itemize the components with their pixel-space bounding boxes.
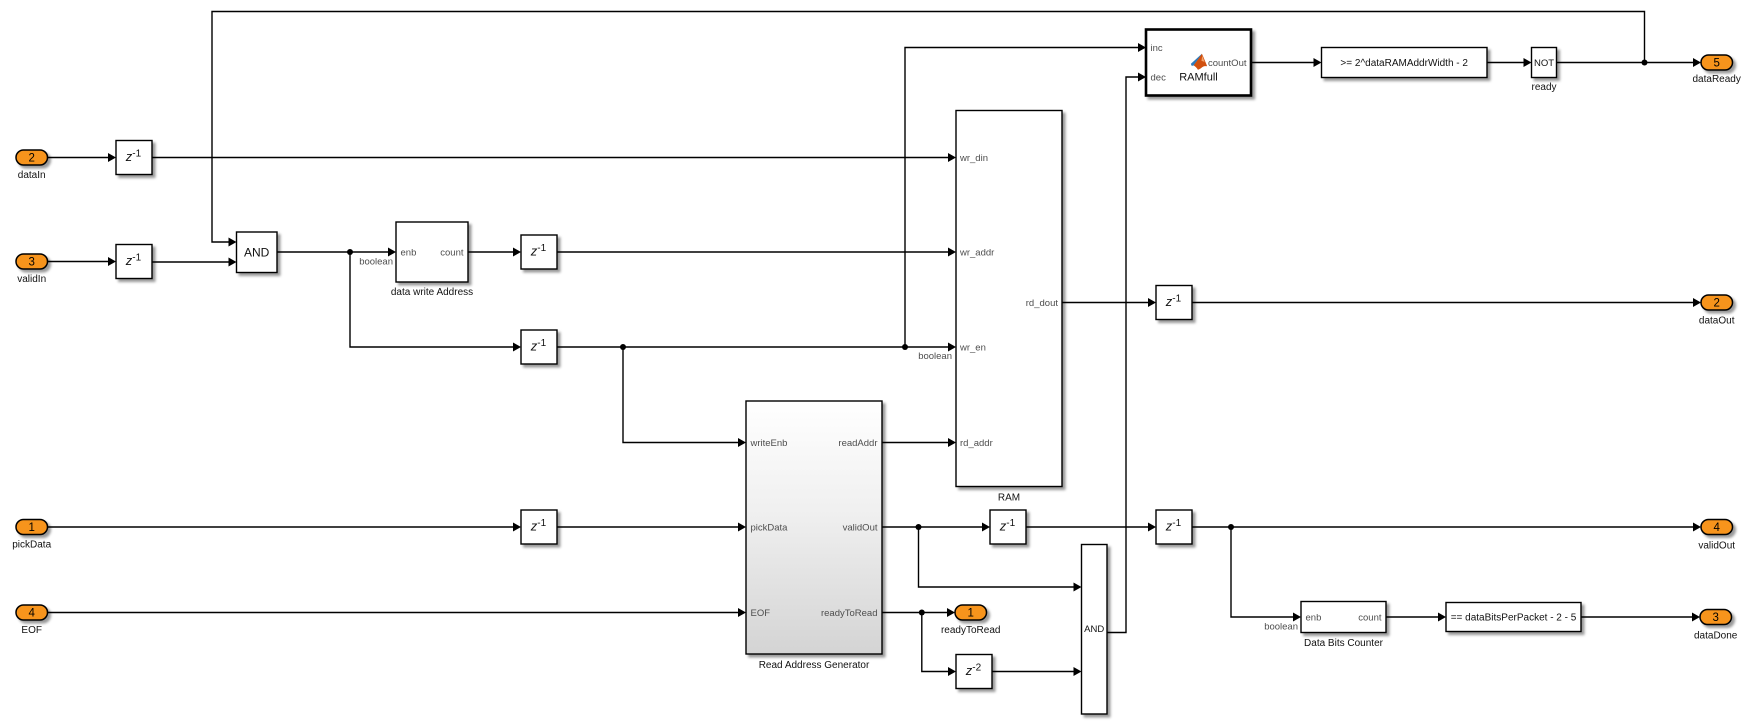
wire validOut branch down to Data Bits Counter enb xyxy=(1231,527,1301,622)
label boolean at enb xyxy=(359,257,393,268)
wire data write Address count to delay Z3 xyxy=(468,248,521,257)
svg-text:3: 3 xyxy=(1712,612,1718,624)
wire Z6 to delay Z7 xyxy=(1026,523,1156,532)
svg-text:4: 4 xyxy=(28,608,35,620)
delay Z5 xyxy=(521,510,557,544)
svg-text:NOT: NOT xyxy=(1534,58,1554,69)
output port 3 dataDone xyxy=(1694,610,1738,642)
input port 1 pickData xyxy=(12,520,51,551)
junction on AND output xyxy=(347,249,353,255)
svg-text:wr_addr: wr_addr xyxy=(959,248,994,259)
label boolean at Data Bits Counter enb xyxy=(1264,622,1298,633)
logic AND U2 xyxy=(1082,545,1108,715)
wire Z9 to AND input 2 xyxy=(992,667,1082,676)
compare block >= 2^dataRAMAddrWidth - 2 xyxy=(1322,48,1488,78)
wire Data Bits Counter count to compare xyxy=(1386,613,1446,622)
wire wr_en branch down to writeEnb xyxy=(623,347,746,447)
svg-text:3: 3 xyxy=(28,257,34,269)
svg-text:wr_en: wr_en xyxy=(959,343,986,354)
svg-text:enb: enb xyxy=(1306,613,1322,624)
delay Z4 xyxy=(521,330,557,364)
wire Z5 to Read Address Generator pickData xyxy=(557,523,746,532)
wire RAMfull countOut to compare xyxy=(1251,58,1322,67)
svg-text:dataIn: dataIn xyxy=(18,170,46,181)
wire readyToRead to port 1 xyxy=(882,608,955,617)
svg-text:AND: AND xyxy=(244,246,270,260)
delay Z9 xyxy=(956,655,992,689)
wire pickData to delay Z5 xyxy=(48,523,522,532)
delay Z2 xyxy=(116,245,152,279)
svg-text:dataDone: dataDone xyxy=(1694,631,1738,642)
wire Z4 to RAM wr_en xyxy=(557,343,956,352)
wire wr_en branch up to RAMfull inc xyxy=(905,43,1146,347)
MATLAB logo in RAMfull xyxy=(1191,54,1207,70)
RAM block xyxy=(956,111,1062,504)
wire NOT to dataReady port xyxy=(1557,58,1702,67)
MATLAB function RAMfull xyxy=(1146,30,1251,96)
svg-text:validOut: validOut xyxy=(843,523,878,534)
delay Z3 xyxy=(521,235,557,269)
wire AND output down to delay Z4 xyxy=(350,252,521,352)
subsystem Read Address Generator xyxy=(746,401,882,671)
label boolean at wr_en xyxy=(918,351,952,362)
svg-text:rd_dout: rd_dout xyxy=(1026,298,1059,309)
input port 4 EOF xyxy=(16,605,48,636)
wire compare to NOT xyxy=(1487,58,1532,67)
svg-text:readAddr: readAddr xyxy=(838,438,877,449)
svg-text:boolean: boolean xyxy=(1264,622,1298,633)
svg-text:5: 5 xyxy=(1713,58,1719,70)
junction on validOut output wire xyxy=(1228,524,1234,530)
logic NOT ready xyxy=(1531,48,1556,94)
logic AND U1 xyxy=(237,232,278,273)
wire readAddr to RAM rd_addr xyxy=(882,438,956,447)
svg-text:pickData: pickData xyxy=(751,523,789,534)
svg-text:count: count xyxy=(440,248,464,259)
svg-text:rd_addr: rd_addr xyxy=(960,438,993,449)
output port 4 validOut xyxy=(1698,520,1735,552)
svg-text:boolean: boolean xyxy=(359,257,393,268)
svg-text:4: 4 xyxy=(1713,522,1720,534)
svg-text:Data Bits Counter: Data Bits Counter xyxy=(1304,638,1384,649)
svg-text:AND: AND xyxy=(1084,624,1104,635)
svg-text:countOut: countOut xyxy=(1208,58,1247,69)
wire validIn to delay Z2 xyxy=(48,257,117,266)
wire AND U2 output up to RAMfull dec xyxy=(1107,73,1146,633)
compare block == dataBitsPerPacket - 2 - 5 xyxy=(1446,603,1581,632)
wire dataIn to delay Z1 xyxy=(48,153,117,162)
junction on wr_en wire at inc branch xyxy=(902,344,908,350)
wire Z1 to RAM wr_din xyxy=(152,153,956,162)
delay Z6 xyxy=(990,510,1026,544)
wire validOut to delay Z6 xyxy=(882,523,990,532)
output port 1 readyToRead xyxy=(941,605,1000,636)
svg-text:1: 1 xyxy=(967,608,973,620)
junction on readyToRead wire xyxy=(919,610,925,616)
delay Z7 xyxy=(1156,510,1192,544)
input port 3 validIn xyxy=(16,254,48,285)
wire Z2 to AND input 2 xyxy=(152,258,237,267)
svg-text:validOut: validOut xyxy=(1698,541,1735,552)
input port 2 dataIn xyxy=(16,150,48,181)
svg-text:>= 2^dataRAMAddrWidth - 2: >= 2^dataRAMAddrWidth - 2 xyxy=(1340,58,1468,69)
delay Z8 xyxy=(1156,286,1192,320)
svg-text:2: 2 xyxy=(28,153,34,165)
output port 5 dataReady xyxy=(1693,55,1741,85)
wire compare to dataDone port xyxy=(1581,613,1700,622)
svg-text:count: count xyxy=(1358,613,1382,624)
wire Z7 to validOut port xyxy=(1192,523,1701,532)
feedback wire from ready to AND input 1 xyxy=(212,12,1645,247)
counter data write Address xyxy=(391,222,473,298)
svg-text:2: 2 xyxy=(1713,298,1719,310)
svg-text:readyToRead: readyToRead xyxy=(941,625,1000,636)
svg-text:Read Address Generator: Read Address Generator xyxy=(759,660,870,671)
svg-text:EOF: EOF xyxy=(21,625,42,636)
wire RAM rd_dout to delay Z8 xyxy=(1062,298,1156,307)
svg-text:enb: enb xyxy=(401,248,417,259)
svg-text:wr_din: wr_din xyxy=(959,153,988,164)
junction on validOut wire xyxy=(916,524,922,530)
output port 2 dataOut xyxy=(1699,295,1735,327)
svg-text:writeEnb: writeEnb xyxy=(750,438,788,449)
wire Z8 to dataOut xyxy=(1192,298,1701,307)
svg-text:pickData: pickData xyxy=(12,540,51,551)
junction on dataReady wire xyxy=(1642,60,1648,66)
delay Z1 xyxy=(116,141,152,175)
svg-text:data write Address: data write Address xyxy=(391,287,473,298)
svg-text:inc: inc xyxy=(1151,43,1163,54)
svg-text:dataOut: dataOut xyxy=(1699,316,1735,327)
svg-text:EOF: EOF xyxy=(751,608,771,619)
svg-text:== dataBitsPerPacket - 2 - 5: == dataBitsPerPacket - 2 - 5 xyxy=(1451,613,1577,624)
wire EOF to Read Address Generator EOF xyxy=(48,608,747,617)
svg-text:dataReady: dataReady xyxy=(1693,74,1741,85)
svg-text:dec: dec xyxy=(1151,73,1167,84)
svg-text:boolean: boolean xyxy=(918,351,952,362)
svg-text:ready: ready xyxy=(1531,82,1556,93)
junction on wr_en wire at writeEnb branch xyxy=(620,344,626,350)
wire readyToRead branch down to delay Z9 xyxy=(922,613,956,677)
svg-text:1: 1 xyxy=(28,522,34,534)
wire validOut branch down to AND input 1 xyxy=(919,527,1082,592)
svg-text:validIn: validIn xyxy=(17,274,46,285)
svg-text:RAMfull: RAMfull xyxy=(1179,72,1218,84)
svg-text:RAM: RAM xyxy=(998,493,1020,504)
svg-text:readyToRead: readyToRead xyxy=(821,608,878,619)
wire Z3 to RAM wr_addr xyxy=(557,248,956,257)
wire AND to data write Address enb xyxy=(277,248,396,257)
counter Data Bits Counter xyxy=(1301,602,1386,650)
